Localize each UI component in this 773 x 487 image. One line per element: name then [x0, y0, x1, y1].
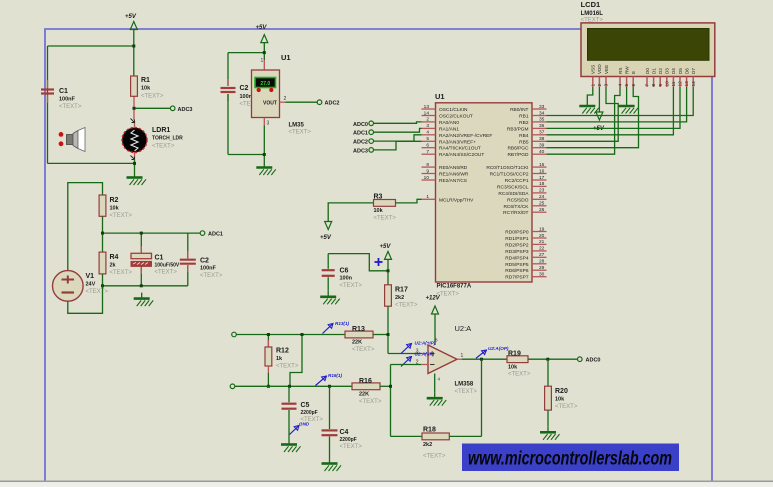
- svg-text:<TEXT>: <TEXT>: [141, 94, 164, 100]
- svg-text:MCLR/Vpp/THV: MCLR/Vpp/THV: [439, 197, 474, 203]
- resistor R13 22K: [345, 326, 375, 353]
- svg-text:RD3/PSP3: RD3/PSP3: [505, 249, 529, 255]
- svg-text:2: 2: [597, 84, 603, 87]
- svg-text:RD1/PSP1: RD1/PSP1: [505, 236, 529, 242]
- svg-text:10: 10: [424, 175, 430, 181]
- svg-text:D0: D0: [645, 68, 650, 74]
- node ADC1: [200, 231, 223, 238]
- svg-text:R2: R2: [110, 197, 119, 204]
- svg-text:9: 9: [426, 168, 429, 174]
- svg-text:13: 13: [424, 104, 430, 110]
- wire U1 VOUT pin 2 to ADC2: [280, 96, 318, 102]
- wire R18 left: [391, 435, 423, 437]
- resistor R18 2k2: [422, 427, 449, 460]
- svg-text:1: 1: [461, 353, 464, 359]
- svg-text:22K: 22K: [359, 391, 369, 397]
- svg-text:R19: R19: [508, 350, 521, 357]
- junction output/feedback: [480, 358, 483, 361]
- wire left vertical through C1: [47, 46, 49, 163]
- ground mid-left: [134, 293, 154, 307]
- power +5V flag (MCLR pull-up): [320, 222, 332, 242]
- ground LCD left: [579, 100, 599, 114]
- svg-text:10k: 10k: [374, 208, 384, 214]
- ground under R20: [540, 426, 560, 440]
- svg-text:40: 40: [539, 149, 545, 155]
- junction bias node: [387, 269, 390, 272]
- ground under C5: [281, 439, 301, 453]
- power +5V flag (LCD VDD): [593, 112, 605, 132]
- svg-text:LDR1: LDR1: [152, 127, 170, 134]
- wire ADC0 to RA0: [374, 122, 422, 123]
- svg-text:2200pF: 2200pF: [301, 410, 318, 416]
- ground under U1 LM35: [256, 162, 276, 176]
- op-amp U2:A LM358: [416, 324, 478, 395]
- resistor R4 2k: [99, 252, 132, 276]
- svg-text:10: 10: [664, 81, 670, 87]
- svg-text:RC7/RX/DT: RC7/RX/DT: [503, 210, 528, 216]
- svg-text:38: 38: [539, 136, 545, 142]
- svg-text:LM016L: LM016L: [581, 11, 604, 17]
- svg-text:4: 4: [426, 130, 429, 136]
- svg-text:1: 1: [261, 58, 264, 64]
- wire upper input line: [236, 334, 345, 336]
- svg-text:20: 20: [539, 233, 545, 239]
- wire bottom of left loop: [48, 162, 135, 164]
- wire LCD RS to RB7: [547, 87, 621, 154]
- svg-text:8: 8: [651, 84, 657, 87]
- svg-text:www.microcontrollerslab.com: www.microcontrollerslab.com: [468, 449, 672, 470]
- svg-text:1k: 1k: [276, 356, 283, 362]
- svg-text:VSS: VSS: [591, 65, 596, 74]
- power +5V flag (top-left): [125, 14, 137, 30]
- svg-text:RC0/T1OSO/T1CKI: RC0/T1OSO/T1CKI: [486, 165, 528, 171]
- svg-text:4: 4: [618, 84, 624, 87]
- junction +5V / C2: [263, 51, 266, 54]
- svg-text:<TEXT>: <TEXT>: [555, 404, 578, 410]
- svg-text:D7: D7: [691, 68, 696, 74]
- svg-text:10k: 10k: [141, 86, 151, 92]
- svg-text:ADC0: ADC0: [353, 122, 368, 128]
- svg-text:RC6/TX/CK: RC6/TX/CK: [503, 204, 529, 210]
- svg-text:RB3/PGM: RB3/PGM: [507, 126, 529, 132]
- banner www.microcontrollerslab.com: [462, 444, 679, 472]
- svg-text:5: 5: [624, 84, 630, 87]
- svg-text:R13(1): R13(1): [335, 321, 350, 326]
- svg-text:U2:A(+IP): U2:A(+IP): [415, 341, 436, 346]
- svg-text:<TEXT>: <TEXT>: [437, 292, 460, 298]
- svg-text:V1: V1: [86, 273, 95, 280]
- svg-text:<TEXT>: <TEXT>: [359, 399, 382, 405]
- junction step on upper wire: [301, 333, 304, 336]
- svg-text:100uF/50V: 100uF/50V: [155, 263, 180, 269]
- svg-text:33: 33: [539, 104, 545, 110]
- power +5V flag (LM35): [256, 25, 268, 43]
- ground under C6: [320, 291, 340, 305]
- svg-text:8: 8: [426, 162, 429, 168]
- svg-text:VDD: VDD: [597, 64, 602, 74]
- wire V1 minus loop: [68, 286, 103, 314]
- wire +12V to op-amp: [434, 314, 436, 345]
- resistor R16 22K: [352, 378, 382, 405]
- node ADC2 (PIC side): [353, 139, 373, 146]
- svg-text:RD0/PSP0: RD0/PSP0: [505, 230, 529, 236]
- junction R4 bottom rail: [101, 284, 104, 287]
- svg-text:5: 5: [426, 136, 429, 142]
- resistor R20 10k: [545, 359, 578, 426]
- svg-text:U2:A(OP): U2:A(OP): [488, 346, 509, 351]
- svg-text:E: E: [631, 71, 636, 74]
- svg-text:LM358: LM358: [455, 382, 474, 388]
- svg-text:RC3/SCK/SCL: RC3/SCK/SCL: [497, 184, 529, 190]
- LDR photo marks: [131, 119, 135, 160]
- capacitor C6 100n: [322, 254, 363, 291]
- wire R3 left to +5V flag: [328, 203, 373, 222]
- wire LCD E to RB6: [547, 87, 639, 148]
- junction R1/LDR/ADC3: [133, 107, 136, 110]
- resistor R12 1k: [265, 335, 299, 387]
- wire C2 vertical: [227, 53, 229, 155]
- wire R2 bottom to rail: [102, 216, 104, 252]
- svg-text:LCD1: LCD1: [581, 0, 601, 9]
- wire ADC3 to RA3: [374, 141, 422, 150]
- node ADC3 (PIC side): [353, 148, 373, 155]
- wire C2 top stem: [187, 233, 189, 258]
- svg-text:12: 12: [678, 81, 684, 87]
- junction C1 rail: [140, 232, 143, 235]
- svg-text:24V: 24V: [86, 282, 96, 288]
- svg-text:VEE: VEE: [604, 65, 609, 74]
- svg-text:RB1: RB1: [519, 114, 529, 120]
- svg-text:19: 19: [539, 226, 545, 232]
- svg-text:ADC0: ADC0: [586, 358, 601, 364]
- label R16(1) blue: [316, 373, 343, 386]
- svg-text:R20: R20: [555, 388, 568, 395]
- svg-text:7: 7: [645, 84, 651, 87]
- svg-text:<TEXT>: <TEXT>: [455, 389, 478, 395]
- ground LCD right: [619, 100, 639, 114]
- svg-text:17: 17: [539, 175, 545, 181]
- resistor R2 10k: [99, 195, 132, 219]
- wire C2 branch top: [228, 52, 264, 54]
- svg-text:RA3/AN3/VREF+: RA3/AN3/VREF+: [439, 139, 476, 145]
- wire LCD D7 to RB1: [547, 87, 694, 116]
- node ADC3 (top-left): [170, 106, 192, 113]
- wire LDR to ground: [134, 159, 136, 172]
- svg-text:15: 15: [539, 162, 545, 168]
- resistor R1 10k: [131, 76, 164, 120]
- svg-text:U1: U1: [281, 53, 291, 62]
- junction LDR bottom rail: [133, 162, 136, 165]
- svg-text:RD2/PSP2: RD2/PSP2: [505, 242, 529, 248]
- svg-text:RD4/PSP4: RD4/PSP4: [505, 255, 529, 261]
- svg-text:RD7/PSP7: RD7/PSP7: [505, 275, 529, 281]
- torch icon of LDR1: [59, 128, 85, 152]
- svg-text:+5V: +5V: [380, 244, 392, 250]
- svg-text:37: 37: [539, 130, 545, 136]
- svg-text:C1: C1: [155, 255, 164, 262]
- wire C1 bottom stem: [140, 267, 142, 286]
- svg-text:RB2: RB2: [519, 120, 529, 126]
- wire R16 right to feedback riser: [380, 385, 391, 387]
- wire LCD D5 to RB3: [547, 87, 681, 128]
- svg-text:<TEXT>: <TEXT>: [155, 270, 178, 276]
- svg-text:C6: C6: [340, 268, 349, 275]
- junction at +5V rail: [132, 45, 135, 48]
- svg-text:<TEXT>: <TEXT>: [152, 144, 175, 150]
- wire ADC2 to RA2: [374, 135, 422, 141]
- wire R13 right to riser: [373, 334, 388, 336]
- wire top-left horizontal rail: [48, 45, 134, 47]
- svg-text:30: 30: [539, 272, 545, 278]
- wire LCD D6 to RB2: [547, 87, 687, 122]
- wire LCD VSS to ground: [587, 87, 593, 100]
- svg-text:+12V: +12V: [426, 296, 441, 302]
- svg-text:<TEXT>: <TEXT>: [200, 273, 223, 279]
- svg-text:23: 23: [539, 188, 545, 194]
- svg-text:RB6/PGC: RB6/PGC: [507, 146, 529, 152]
- node input plus terminal: [232, 332, 237, 337]
- svg-text:RD6/PSP6: RD6/PSP6: [505, 268, 529, 274]
- junction C5 top: [288, 385, 291, 388]
- svg-text:RE1/AN6/WR: RE1/AN6/WR: [439, 172, 469, 178]
- svg-text:D5: D5: [678, 68, 683, 74]
- svg-text:26: 26: [539, 207, 545, 213]
- capacitor C1 100uF/50V electrolytic: [131, 253, 180, 275]
- svg-text:C2: C2: [240, 85, 249, 92]
- svg-text:RA4/T0CKI/C1OUT: RA4/T0CKI/C1OUT: [439, 146, 481, 152]
- wire R16 feedback riser: [391, 365, 422, 437]
- svg-text:36: 36: [539, 123, 545, 129]
- svg-text:R13: R13: [352, 326, 365, 333]
- svg-text:3: 3: [426, 123, 429, 129]
- wire ADC1 rail: [103, 232, 201, 234]
- svg-text:D2: D2: [658, 68, 663, 74]
- svg-text:R12: R12: [276, 348, 289, 355]
- svg-text:R4: R4: [110, 254, 119, 261]
- wire LCD RW to ground: [626, 87, 628, 100]
- wire +5V to U1 pin 1: [261, 43, 265, 70]
- svg-text:14: 14: [691, 81, 697, 87]
- svg-text:ADC2: ADC2: [353, 140, 368, 146]
- probe plus marker: [375, 258, 383, 266]
- svg-text:21: 21: [539, 239, 545, 245]
- svg-text:U1: U1: [435, 92, 445, 101]
- wire op-amp output: [457, 358, 507, 360]
- junction R12 bottom: [267, 385, 270, 388]
- svg-text:18: 18: [539, 181, 545, 187]
- svg-text:13: 13: [684, 81, 690, 87]
- wire lower rail: [103, 274, 188, 286]
- wire C2 bottom to ground net: [228, 154, 264, 156]
- svg-text:2k2: 2k2: [423, 442, 432, 448]
- svg-text:2k: 2k: [110, 263, 117, 269]
- svg-text:C5: C5: [301, 402, 310, 409]
- svg-text:R1: R1: [141, 77, 150, 84]
- svg-text:100n: 100n: [340, 276, 353, 282]
- node ADC1 (PIC side): [353, 130, 373, 137]
- svg-text:22: 22: [539, 246, 545, 252]
- resistor R17 2k2: [385, 285, 418, 309]
- svg-text:R3: R3: [374, 194, 383, 201]
- wire lower input line: [235, 385, 352, 387]
- svg-text:<TEXT>: <TEXT>: [581, 17, 604, 23]
- svg-text:PIC16F877A: PIC16F877A: [437, 284, 472, 290]
- node ADC0 output: [578, 357, 601, 364]
- label U2:A(OP) blue: [476, 346, 509, 358]
- LDR LDR1 TORCH_LDR: [122, 121, 183, 159]
- svg-text:RB0/INT: RB0/INT: [510, 107, 528, 113]
- svg-text:27: 27: [539, 252, 545, 258]
- svg-text:GND: GND: [299, 422, 310, 427]
- svg-text:D6: D6: [684, 68, 689, 74]
- label U2:A(+IP) blue: [401, 341, 436, 354]
- wire C2 bottom stem: [187, 265, 189, 286]
- svg-text:RA5/AN4/SS/C2OUT: RA5/AN4/SS/C2OUT: [439, 152, 484, 158]
- svg-text:+5V: +5V: [256, 25, 268, 31]
- wire feedback riser: [481, 359, 483, 436]
- wire +5V to R17 and C6: [328, 254, 388, 285]
- wire +5V stem to R1: [133, 30, 135, 77]
- svg-text:2k2: 2k2: [395, 295, 404, 301]
- svg-text:U2:A(-IP): U2:A(-IP): [415, 352, 435, 357]
- wire LCD VEE to RB5: [547, 87, 619, 141]
- svg-text:OSC2/CLKOUT: OSC2/CLKOUT: [439, 114, 473, 120]
- svg-text:25: 25: [539, 201, 545, 207]
- svg-text:<TEXT>: <TEXT>: [340, 444, 363, 450]
- junction R19/R20: [546, 358, 549, 361]
- svg-text:6: 6: [426, 143, 429, 149]
- node ADC2 (LM35 out): [317, 100, 339, 107]
- svg-text:+5V: +5V: [125, 14, 137, 20]
- svg-text:RA0/AN0: RA0/AN0: [439, 120, 459, 126]
- wire R1 to ADC3 node: [134, 107, 170, 109]
- wire R2 top to V1 plus: [68, 183, 103, 271]
- svg-text:10k: 10k: [110, 206, 120, 212]
- svg-text:<TEXT>: <TEXT>: [86, 289, 109, 295]
- svg-text:<TEXT>: <TEXT>: [289, 130, 312, 136]
- resistor R3 10k: [374, 194, 397, 222]
- wire C1 top stem: [140, 233, 142, 253]
- svg-text:RD5/PSP5: RD5/PSP5: [505, 262, 529, 268]
- svg-text:RW: RW: [624, 66, 629, 74]
- svg-text:TORCH_LDR: TORCH_LDR: [152, 136, 183, 142]
- svg-text:RC2/CCP1: RC2/CCP1: [505, 178, 529, 184]
- svg-text:28: 28: [539, 259, 545, 265]
- svg-text:27.0: 27.0: [260, 81, 270, 87]
- label R13(1) blue: [323, 321, 350, 334]
- node ADC0 (PIC side): [353, 121, 373, 128]
- svg-text:ADC3: ADC3: [178, 107, 193, 113]
- svg-text:U2:A: U2:A: [455, 324, 472, 333]
- label GND blue: [290, 422, 310, 435]
- svg-text:34: 34: [539, 110, 545, 116]
- wire ADC1 to RA1: [374, 128, 422, 132]
- wire R19 to ADC0: [528, 358, 577, 360]
- display LCD1 LM016L: [581, 0, 715, 87]
- svg-text:LM35: LM35: [289, 123, 305, 129]
- junction R2/R4 rail: [101, 232, 104, 235]
- svg-text:ADC3: ADC3: [353, 148, 368, 154]
- svg-text:11: 11: [671, 81, 677, 86]
- svg-text:D1: D1: [651, 68, 656, 74]
- svg-text:RC1/T1OSI/CCP2: RC1/T1OSI/CCP2: [490, 172, 529, 178]
- svg-text:RC5/SDO: RC5/SDO: [507, 197, 529, 203]
- svg-text:ADC2: ADC2: [325, 101, 340, 107]
- svg-text:7: 7: [426, 149, 429, 155]
- wire R18 right: [449, 435, 481, 437]
- svg-text:1: 1: [590, 84, 596, 87]
- battery V1 24V: [53, 270, 109, 301]
- svg-text:100nF: 100nF: [200, 266, 217, 272]
- svg-text:C2: C2: [200, 258, 209, 265]
- svg-text:ADC1: ADC1: [208, 232, 223, 238]
- junction pin3/C2: [263, 153, 266, 156]
- svg-text:10k: 10k: [508, 364, 518, 370]
- svg-text:2: 2: [284, 96, 287, 102]
- svg-text:<TEXT>: <TEXT>: [110, 270, 133, 276]
- svg-text:<TEXT>: <TEXT>: [395, 303, 418, 309]
- svg-text:ADC1: ADC1: [353, 131, 368, 137]
- svg-text:D4: D4: [671, 68, 676, 74]
- svg-text:+5V: +5V: [320, 235, 332, 241]
- capacitor C1 (100N top-left): [41, 88, 82, 110]
- svg-text:24: 24: [539, 194, 545, 200]
- svg-text:<TEXT>: <TEXT>: [352, 347, 375, 353]
- svg-text:RC4/SDI/SDA: RC4/SDI/SDA: [498, 191, 529, 197]
- svg-text:RE2/AN7/CS: RE2/AN7/CS: [439, 178, 467, 184]
- svg-text:3: 3: [604, 84, 610, 87]
- svg-text:2200pF: 2200pF: [340, 437, 357, 443]
- label U2:A(-IP) blue: [401, 352, 435, 367]
- wire R3 to PIC pin 1: [396, 199, 422, 203]
- svg-text:<TEXT>: <TEXT>: [110, 213, 133, 219]
- svg-text:9: 9: [658, 84, 664, 87]
- svg-text:100nF: 100nF: [59, 97, 76, 103]
- node input minus terminal: [230, 384, 235, 389]
- svg-text:R18: R18: [423, 427, 436, 434]
- svg-text:RB5: RB5: [519, 139, 529, 145]
- svg-text:<TEXT>: <TEXT>: [508, 371, 531, 377]
- wire upper-lower step: [290, 335, 302, 387]
- junction C4 top: [328, 385, 331, 388]
- svg-text:R16(1): R16(1): [328, 373, 343, 378]
- temperature sensor U1 LM35: [252, 53, 312, 136]
- ground under op-amp: [427, 392, 447, 406]
- svg-text:29: 29: [539, 265, 545, 271]
- svg-text:R16: R16: [359, 378, 372, 385]
- svg-text:1: 1: [426, 194, 429, 200]
- svg-text:<TEXT>: <TEXT>: [59, 104, 82, 110]
- svg-text:VOUT: VOUT: [263, 101, 277, 107]
- svg-text:35: 35: [539, 117, 545, 123]
- power +5V flag (amp bias): [380, 244, 392, 259]
- capacitor C4 2200pF: [322, 386, 363, 457]
- svg-text:<TEXT>: <TEXT>: [340, 283, 363, 289]
- wire R17 bottom riser to op-amp pin3: [388, 306, 421, 353]
- svg-text:2: 2: [426, 117, 429, 123]
- svg-text:RE0/AN5/RD: RE0/AN5/RD: [439, 165, 468, 171]
- capacitor C2 100nF (divider): [180, 258, 223, 280]
- microcontroller U1 PIC16F877A: [422, 92, 547, 298]
- wire LCD D4 to RB4: [547, 87, 674, 135]
- resistor R19 10k: [507, 350, 531, 377]
- capacitor C2 100N (LM35 decoupling): [221, 85, 263, 108]
- ground under C4: [322, 458, 342, 472]
- svg-text:R17: R17: [395, 287, 408, 294]
- junction C1 bottom / ground: [140, 284, 143, 287]
- svg-text:16: 16: [539, 168, 545, 174]
- svg-text:C1: C1: [59, 88, 68, 95]
